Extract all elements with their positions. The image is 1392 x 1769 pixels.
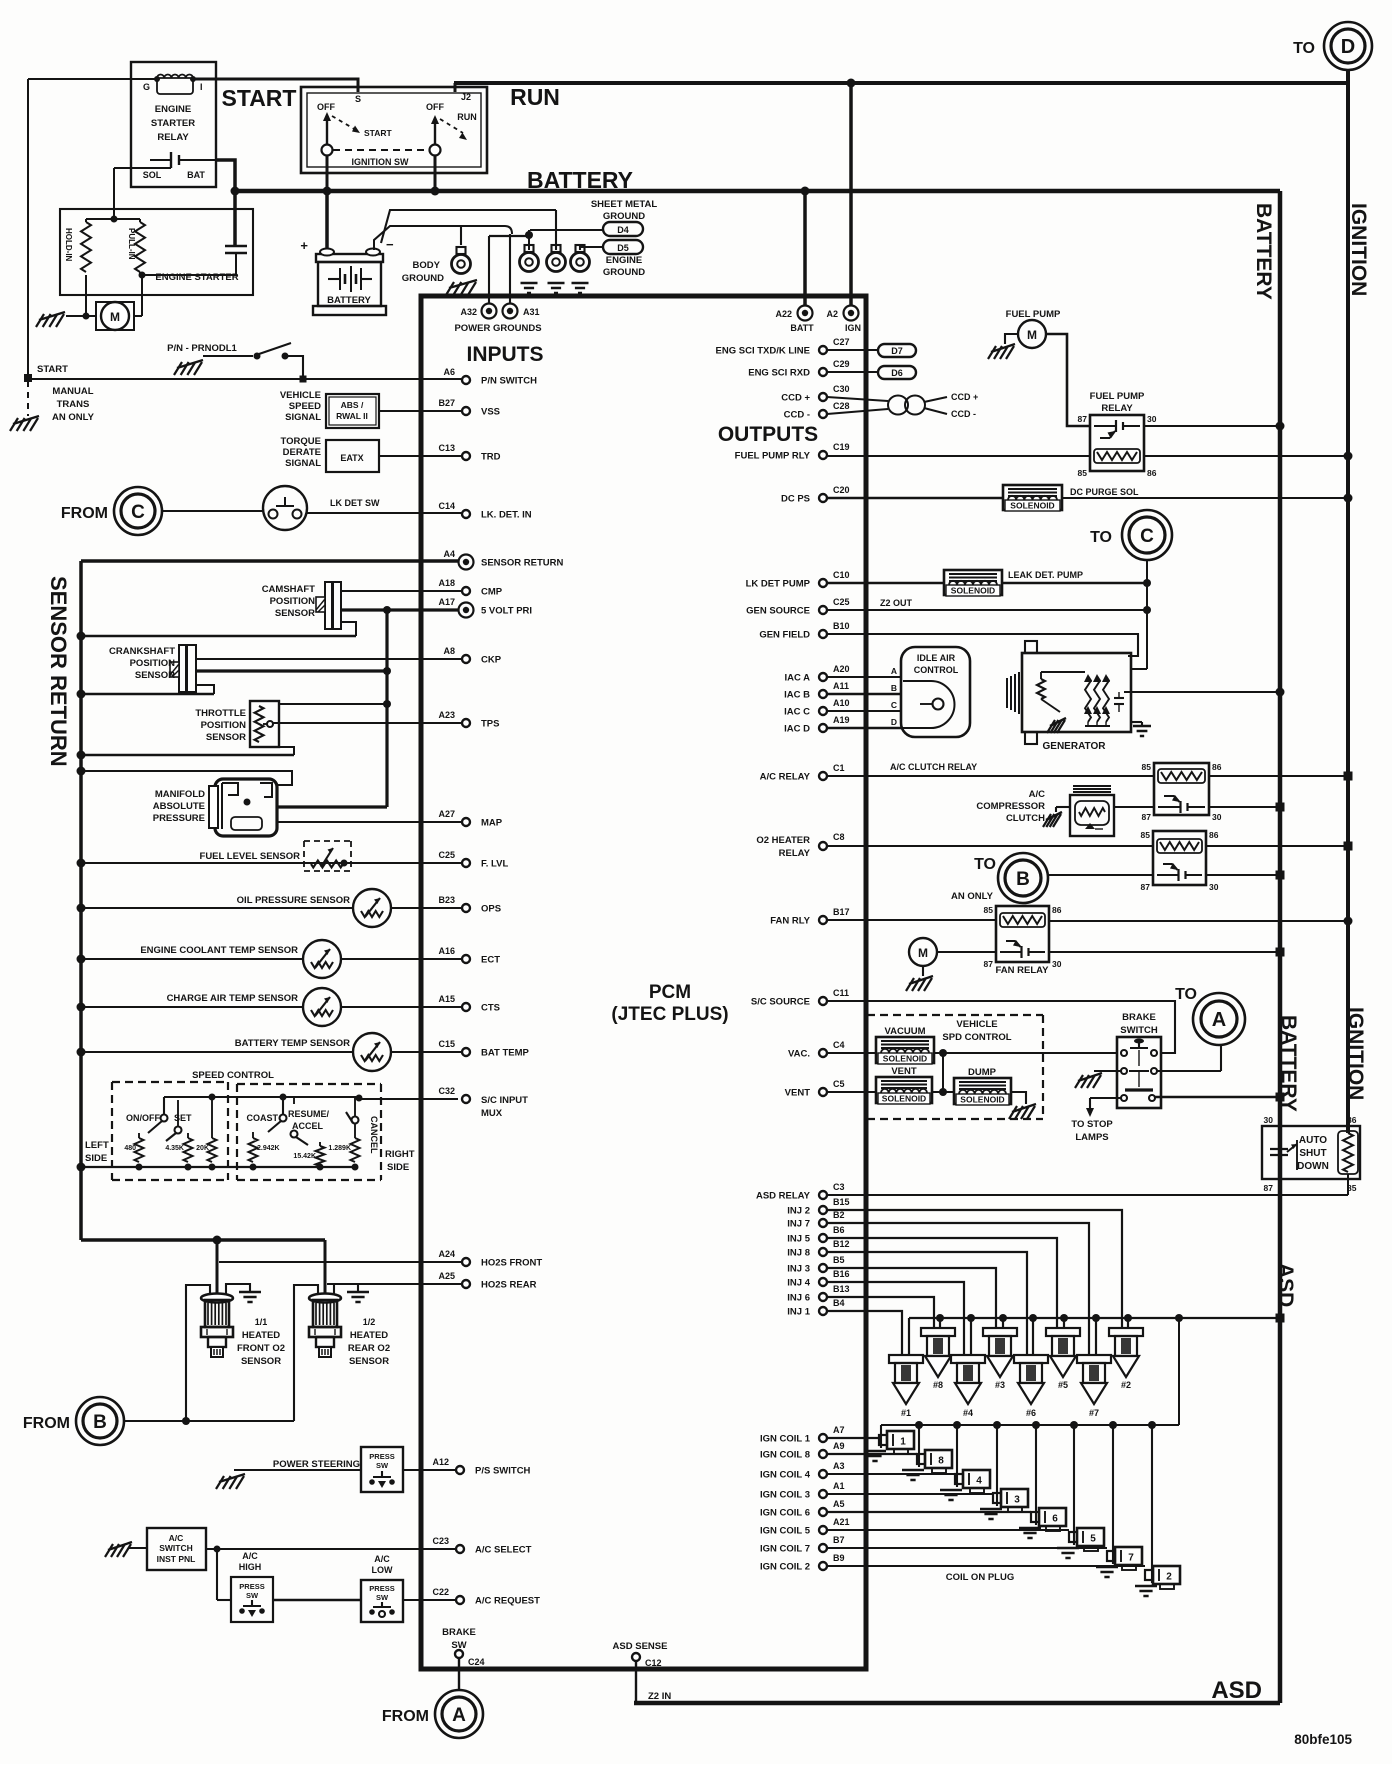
svg-text:RESUME/: RESUME/ [288,1109,330,1119]
svg-text:IDLE AIR: IDLE AIR [917,653,956,663]
svg-text:TO: TO [1090,529,1112,546]
svg-text:Z2 OUT: Z2 OUT [880,598,913,608]
svg-text:PCM: PCM [649,982,691,1003]
svg-text:C1: C1 [833,763,845,773]
battery symbol [316,254,383,262]
svg-text:DUMP: DUMP [968,1067,997,1078]
wire heater stem front O2 [216,1240,219,1296]
wire gen field B10 [827,634,1138,656]
svg-text:20K: 20K [196,1145,209,1152]
svg-text:BAT TEMP: BAT TEMP [481,1048,530,1059]
wire ASD sense Z2 IN [635,1661,637,1703]
svg-text:IGNITION: IGNITION [1344,1007,1367,1100]
pin C1 A/C relay [819,772,827,780]
wire fuel pump relay 30 to battery rail [1144,425,1280,427]
svg-text:C4: C4 [833,1040,845,1050]
svg-text:SENSOR RETURN: SENSOR RETURN [46,576,71,767]
svg-text:86: 86 [1347,1115,1357,1125]
wire sensor return branch TPS [81,754,294,756]
svg-text:DC PS: DC PS [781,494,810,505]
svg-text:OFF: OFF [317,102,335,112]
svg-text:87: 87 [984,959,994,969]
engine ground ring terminal 2 [552,245,561,252]
svg-text:B10: B10 [833,621,850,631]
svg-text:P/S SWITCH: P/S SWITCH [475,1466,531,1477]
EATX module [326,440,379,472]
svg-text:COMPRESSOR: COMPRESSOR [976,801,1045,812]
svg-text:P/N - PRNODL1: P/N - PRNODL1 [167,343,237,354]
svg-text:IAC D: IAC D [784,724,810,735]
capacitor under starter relay [233,191,237,245]
svg-text:POWER STEERING: POWER STEERING [273,1459,360,1470]
engine starter box [60,209,253,295]
svg-text:VEHICLE: VEHICLE [956,1019,997,1030]
diode oval D7 [878,344,916,357]
wire C4 vac [827,1052,876,1054]
pin A4 sensor return [459,555,474,570]
vehicle speed control dashed box [867,1014,1043,1016]
svg-text:MANUAL: MANUAL [52,386,93,397]
pin B15 INJ 2 [819,1206,827,1214]
svg-text:FUEL PUMP: FUEL PUMP [1090,391,1145,402]
pin A22 BATT [798,306,813,321]
svg-text:87: 87 [1141,882,1151,892]
svg-text:PULL-IN: PULL-IN [127,228,136,260]
pin A16 ECT [462,955,470,963]
wire sensor return rail vertical [79,561,83,1240]
svg-text:CRANKSHAFT: CRANKSHAFT [109,646,175,657]
engine coolant temp sensor [81,958,303,960]
svg-text:A1: A1 [833,1481,845,1491]
svg-text:SIGNAL: SIGNAL [285,458,321,469]
heated front O2 sensor [201,1294,233,1303]
wire LK DET SW to pin C14 [307,512,462,514]
svg-text:B9: B9 [833,1553,845,1563]
pin C30 CCD+ [819,393,827,401]
svg-text:ASD SENSE: ASD SENSE [613,1641,668,1652]
pin C19 fuel pump relay [819,451,827,459]
wire A/C switch to pin C23 [206,1548,456,1550]
wire IAC C [827,710,901,712]
svg-text:A31: A31 [523,307,540,317]
svg-text:DOWN: DOWN [1297,1161,1329,1172]
svg-text:A7: A7 [833,1425,845,1435]
svg-text:5: 5 [1090,1534,1096,1545]
wire INJ6 staircase [827,1297,934,1328]
power steering pressure switch [361,1447,403,1492]
svg-text:86: 86 [1052,905,1062,915]
svg-text:SET: SET [174,1113,192,1123]
svg-text:A/C: A/C [1029,789,1046,800]
svg-text:SPEED: SPEED [289,401,321,412]
ignition switch contact S post [322,145,333,156]
svg-text:BATTERY: BATTERY [527,167,633,193]
svg-text:START: START [364,128,393,138]
wire capacitor to pull-in coil bottom [142,253,236,275]
svg-text:M: M [110,310,120,324]
wire brake switch row3 to battery rail [1155,1096,1280,1098]
svg-text:SIGNAL: SIGNAL [285,412,321,423]
wire O2 heater relay 87 to node B [1048,874,1153,876]
svg-text:C32: C32 [438,1086,455,1096]
sheet metal ground oval D4 [603,222,643,236]
pin C24 brake switch [455,1650,463,1658]
wire body ground stem [460,226,462,245]
ignition coil 7 on plug [1107,1551,1115,1561]
svg-text:87: 87 [1078,414,1088,424]
pin A10 IAC C [819,707,827,715]
engine ground ring terminal 3 [576,245,585,252]
svg-text:C5: C5 [833,1079,845,1089]
svg-text:INJ 1: INJ 1 [787,1307,810,1318]
svg-text:8: 8 [938,1456,944,1467]
svg-text:CHARGE AIR TEMP SENSOR: CHARGE AIR TEMP SENSOR [167,993,299,1004]
svg-text:80bfe105: 80bfe105 [1294,1732,1352,1747]
wire C19 to fuel pump relay 85 [827,455,1090,457]
wire press switch to pin A12 [403,1469,456,1471]
svg-text:PRESS: PRESS [369,1452,394,1461]
ignition switch box [301,87,487,173]
svg-text:1/2: 1/2 [363,1317,376,1327]
svg-text:A12: A12 [432,1457,449,1467]
svg-text:HEATED: HEATED [350,1330,388,1341]
svg-text:30: 30 [1264,1115,1274,1125]
svg-text:SOLENOID: SOLENOID [883,1054,927,1064]
svg-text:AN ONLY: AN ONLY [52,412,95,423]
svg-text:FROM: FROM [61,505,108,522]
leak detection switch [162,510,263,512]
svg-text:SENSOR: SENSOR [275,608,315,619]
svg-text:4.35K: 4.35K [165,1145,184,1152]
wire battery negative upper branch [381,210,556,243]
svg-text:B: B [93,1412,107,1433]
pin B10 GEN FIELD [819,630,827,638]
svg-text:C15: C15 [438,1039,455,1049]
wire sensor return to O2 heaters [81,1238,325,1242]
wire brake switch to node A [458,1658,460,1690]
svg-text:POWER GROUNDS: POWER GROUNDS [454,323,541,334]
svg-text:#6: #6 [1026,1408,1036,1418]
svg-text:EATX: EATX [340,453,363,463]
wire A32 power ground [488,236,490,303]
svg-text:A2: A2 [826,309,838,319]
wire MAP to 5 volt bus [277,805,387,808]
svg-text:D7: D7 [891,346,903,356]
svg-text:HO2S FRONT: HO2S FRONT [481,1258,542,1269]
svg-text:A25: A25 [438,1271,455,1281]
pin A1 IGN coil 3 [819,1490,827,1498]
pin C29 ENG SCI RXD [819,368,827,376]
wire 5 volt pri bus vertical [385,610,388,807]
svg-text:87: 87 [1142,812,1152,822]
pin C25 GEN SOURCE [819,606,827,614]
svg-text:IGN COIL 7: IGN COIL 7 [760,1544,810,1555]
svg-text:CCD +: CCD + [781,393,810,404]
svg-text:ECT: ECT [481,955,500,966]
svg-text:CLUTCH: CLUTCH [1006,813,1045,824]
wire coil bus drop 4 with ground [953,1421,961,1429]
starter motor M [96,302,134,330]
resistor 1.289K [351,1138,360,1162]
ignition coil 2 on plug [1145,1570,1153,1580]
pin C3 ASD relay [819,1191,827,1199]
svg-text:85: 85 [1078,468,1088,478]
wire coil bus drop 1 with ground [880,1425,882,1448]
svg-text:LK. DET. IN: LK. DET. IN [481,510,532,521]
fuel injector 5 [1046,1328,1080,1336]
svg-text:TRD: TRD [481,452,501,463]
svg-text:PRESS: PRESS [239,1582,264,1591]
svg-text:C25: C25 [833,597,850,607]
svg-text:LEFT: LEFT [85,1140,109,1151]
svg-text:C22: C22 [432,1587,449,1597]
svg-text:SOLENOID: SOLENOID [960,1095,1004,1105]
wire node C down to leak det pump [1146,560,1148,669]
svg-text:C8: C8 [833,832,845,842]
svg-text:PRESSURE: PRESSURE [153,813,205,824]
CCD twisted pair [827,397,888,401]
pin A21 IGN coil 5 [819,1526,827,1534]
svg-text:SIDE: SIDE [85,1153,107,1164]
svg-text:B: B [1016,869,1030,890]
svg-text:A15: A15 [438,994,455,1004]
svg-text:A3: A3 [833,1461,845,1471]
svg-text:RUN: RUN [457,112,477,122]
svg-text:86: 86 [1212,762,1222,772]
svg-text:TO: TO [1293,40,1315,57]
svg-text:BODY: BODY [413,260,441,271]
pin A2 IGN [844,306,859,321]
svg-text:IGN COIL 1: IGN COIL 1 [760,1434,811,1445]
wire 5 volt pri A17 [341,608,458,611]
svg-text:INJ 3: INJ 3 [787,1264,810,1275]
ABS RWAL II module [326,394,379,428]
svg-text:3: 3 [1014,1495,1020,1506]
svg-text:GEN FIELD: GEN FIELD [759,630,810,641]
svg-text:TO STOP: TO STOP [1071,1119,1113,1130]
svg-text:A20: A20 [833,664,850,674]
svg-text:ENGINE: ENGINE [606,255,642,266]
wire INJ7 staircase [827,1223,1089,1355]
svg-text:D6: D6 [891,368,903,378]
fuel injector 8 [921,1328,955,1336]
wire camshaft sensor return tail [341,622,356,636]
svg-text:87: 87 [1264,1183,1274,1193]
svg-text:30: 30 [1209,882,1219,892]
svg-text:C: C [131,502,145,523]
wire IAC A [827,676,901,678]
wire pin to coil 6 [827,1511,1031,1513]
svg-text:INJ 8: INJ 8 [787,1248,810,1259]
svg-text:B27: B27 [438,398,455,408]
resistor 480 ohm [135,1138,144,1162]
pin A18 CMP [462,587,470,595]
wire sensor return branch camshaft [81,635,356,637]
svg-text:A/C CLUTCH RELAY: A/C CLUTCH RELAY [890,762,977,772]
svg-text:SPD CONTROL: SPD CONTROL [942,1032,1011,1043]
pin A27 MAP [462,818,470,826]
pin C11 S/C source [819,997,827,1005]
svg-text:VEHICLE: VEHICLE [280,390,321,401]
wire A2 to ignition rail [849,83,853,305]
svg-text:30: 30 [1212,812,1222,822]
pin C10 LK DET PUMP [819,579,827,587]
wire ASD bottom rail [634,1701,1280,1706]
fan motor [909,938,937,966]
svg-text:BRAKE: BRAKE [442,1627,476,1638]
pin A15 CTS [462,1003,470,1011]
wire coil bus drop 6 with ground [1032,1421,1040,1429]
svg-text:GEN SOURCE: GEN SOURCE [746,606,810,617]
svg-text:GROUND: GROUND [603,211,645,222]
wire clutch to A/C relay 87 [1114,806,1154,808]
fuel injector 7 [1077,1355,1111,1363]
svg-text:A/C RELAY: A/C RELAY [760,772,811,783]
svg-text:P/N SWITCH: P/N SWITCH [481,376,537,387]
svg-text:IGN: IGN [845,323,861,333]
svg-text:CTS: CTS [481,1003,500,1014]
svg-text:SENSOR: SENSOR [135,670,175,681]
wire C5 vent [827,1091,876,1093]
idle air control motor [901,647,970,737]
pin A24 HO2S front [462,1258,470,1266]
wire IGNITION rail horizontal [454,81,1348,85]
wire ASD bus to coil bus [1178,1318,1180,1425]
ignition coil 3 on plug [993,1493,1001,1503]
svg-text:SOLENOID: SOLENOID [882,1094,926,1104]
pin C25 F LVL [462,859,470,867]
wire high press to low press [217,1599,231,1601]
node A connector from [435,1690,483,1738]
svg-text:D5: D5 [617,243,629,253]
wire generator output to battery rail [1124,691,1280,693]
ignition coil supply bus [881,1424,1179,1426]
svg-text:ACCEL: ACCEL [292,1121,324,1131]
wire coil bus drop 8 with ground [915,1421,923,1429]
A/C clutch relay [827,775,1154,777]
svg-text:CMP: CMP [481,587,503,598]
svg-text:C19: C19 [833,442,850,452]
pin A23 TPS [462,719,470,727]
svg-text:C14: C14 [438,501,455,511]
pin A20 IAC A [819,673,827,681]
leak detection pump solenoid [827,582,944,584]
svg-text:AUTO: AUTO [1299,1135,1327,1146]
wire IAC B [827,693,901,696]
svg-text:85: 85 [1141,830,1151,840]
svg-text:30: 30 [1052,959,1062,969]
svg-text:TORQUE: TORQUE [281,436,321,447]
pin A32 power ground [482,304,497,319]
svg-text:B17: B17 [833,907,850,917]
svg-text:RWAL II: RWAL II [336,411,368,421]
wire left rail START vertical [27,79,29,378]
wire fan motor to relay 87 [937,951,996,953]
svg-text:MANIFOLD: MANIFOLD [155,789,205,800]
svg-text:C: C [891,700,897,710]
hold-in coil [81,222,91,272]
crankshaft position sensor [179,645,186,692]
svg-text:THROTTLE: THROTTLE [195,708,246,719]
resistor 2.942K [249,1138,258,1162]
svg-text:A18: A18 [438,578,455,588]
wire IGNITION rail vertical right [1346,83,1350,1133]
pin B12 INJ 8 [819,1248,827,1256]
wire START to P/N switch to pin A6 [28,378,462,380]
wire J2 stub to ignition rail [454,83,457,92]
svg-text:REAR O2: REAR O2 [348,1343,390,1354]
wire INJ8 staircase [827,1252,1027,1355]
svg-text:TRANS: TRANS [57,399,90,410]
svg-text:IGNITION SW: IGNITION SW [352,157,410,167]
svg-text:TPS: TPS [481,719,499,730]
svg-text:B15: B15 [833,1197,850,1207]
node B connector from [76,1397,124,1445]
wire A/C relay 86 to ignition rail [1209,775,1348,777]
pin A3 IGN coil 4 [819,1470,827,1478]
svg-text:CANCEL: CANCEL [369,1116,379,1154]
wire J2 post down to battery rail [434,156,437,191]
pin B7 IGN coil 7 [819,1544,827,1552]
svg-text:G: G [143,82,150,92]
svg-text:HOLD-IN: HOLD-IN [64,228,73,262]
svg-text:6: 6 [1052,1514,1058,1525]
svg-text:#3: #3 [995,1380,1005,1390]
pin C22 A/C request [456,1596,464,1604]
pin B9 IGN coil 2 [819,1562,827,1570]
svg-text:D: D [1341,36,1355,58]
engine starter relay contact SOL-BAT [170,152,172,168]
fuel injector 3 [983,1328,1017,1336]
wire brake switch row2 ground [1094,1070,1121,1072]
svg-text:B: B [891,683,897,693]
wire D4 to ring terminals [530,229,603,231]
svg-text:A10: A10 [833,698,850,708]
pin C15 BAT TEMP [462,1048,470,1056]
svg-text:FAN RELAY: FAN RELAY [996,965,1050,976]
wire D5 to ring terminal [580,247,603,250]
svg-text:VACUUM: VACUUM [885,1026,926,1037]
svg-text:SW: SW [376,1461,389,1470]
wire dashed between ignition switch posts [333,149,429,151]
wire brake switch row3 to stop lamps [1090,1097,1121,1099]
svg-text:GROUND: GROUND [603,267,645,278]
svg-text:A32: A32 [460,307,477,317]
svg-text:SENSOR: SENSOR [206,732,246,743]
svg-text:SENSOR: SENSOR [349,1356,389,1367]
svg-text:A/C: A/C [242,1551,258,1561]
wire sensor return branch crankshaft [81,693,214,695]
wire dump to ground [1011,1092,1026,1104]
svg-text:A11: A11 [833,681,849,691]
oil pressure sensor [81,907,353,909]
svg-text:I: I [200,82,203,92]
diode oval D6 [878,366,916,379]
svg-text:C13: C13 [438,443,455,453]
svg-text:A: A [452,1705,466,1726]
svg-text:BATTERY TEMP SENSOR: BATTERY TEMP SENSOR [235,1038,350,1049]
svg-text:86: 86 [1147,468,1157,478]
pin A12 P/S switch [456,1466,464,1474]
wire from B to O2 sensor signals [124,1420,294,1422]
svg-text:85: 85 [984,905,994,915]
svg-text:HEATED: HEATED [242,1330,280,1341]
svg-text:C23: C23 [432,1536,449,1546]
svg-text:B12: B12 [833,1239,850,1249]
svg-text:S/C SOURCE: S/C SOURCE [751,997,810,1008]
svg-text:VENT: VENT [891,1066,917,1077]
svg-text:A23: A23 [438,710,455,720]
